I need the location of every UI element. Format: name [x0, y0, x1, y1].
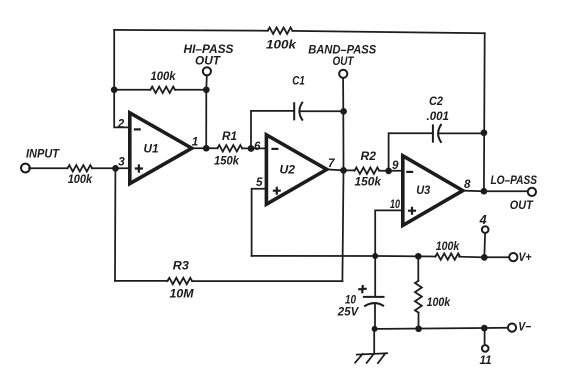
svg-text:V−: V−	[518, 320, 531, 333]
minus sign U3	[406, 171, 413, 173]
svg-text:V+: V+	[519, 251, 532, 264]
resistor R1 150k	[218, 145, 243, 151]
svg-text:U3: U3	[416, 184, 431, 197]
wire: R2 to U3 pin 9	[380, 170, 403, 172]
svg-text:C2: C2	[429, 95, 444, 108]
svg-text:.001: .001	[427, 110, 450, 123]
resistor 100k (U1 feedback)	[150, 87, 175, 93]
wire: U1 pin 2 lead to feedback node	[114, 90, 129, 128]
svg-text:9: 9	[392, 159, 399, 172]
wire: top damping wire right segment	[292, 31, 484, 33]
wire: input resistor to U1 pin 3	[92, 167, 130, 169]
capacitor 10uF 25V (bias bypass)	[374, 256, 376, 296]
svg-text:C1: C1	[292, 75, 305, 88]
terminal V-	[508, 324, 516, 332]
svg-text:U2: U2	[280, 163, 296, 176]
node: cap bottom / ground junction	[372, 326, 378, 332]
op-amp U2	[266, 135, 326, 204]
terminal HI-PASS OUT	[203, 67, 211, 75]
plus sign (10uF polarity)	[358, 285, 367, 293]
svg-text:INPUT: INPUT	[26, 147, 60, 160]
wire: top damping wire left segment	[114, 29, 268, 32]
svg-text:100k: 100k	[427, 296, 451, 309]
svg-text:10: 10	[345, 293, 356, 306]
svg-text:OUT: OUT	[510, 199, 534, 212]
pin 11 terminal	[482, 345, 489, 352]
wire: U2 integrator loop up to C1	[251, 111, 294, 149]
svg-text:7: 7	[328, 157, 335, 170]
wire: C1 to band-pass node	[300, 110, 344, 112]
svg-text:25V: 25V	[337, 306, 360, 319]
svg-text:R2: R2	[361, 150, 377, 163]
terminal BAND-PASS OUT	[339, 70, 347, 78]
svg-text:5: 5	[256, 176, 263, 189]
node: junction at U1 pin 3	[112, 165, 119, 172]
wire: feedback node up to top damping wire	[113, 30, 115, 90]
resistor R2 150k	[355, 168, 380, 174]
svg-text:R1: R1	[222, 130, 237, 143]
svg-text:OUT: OUT	[195, 54, 221, 67]
wire: ground bus (cap bottom to V- terminal)	[375, 328, 509, 329]
minus sign U2	[271, 148, 278, 150]
wire: C2 to right vertical	[439, 132, 484, 134]
wire: bias line (U2 pin5 to V+ node)	[252, 255, 436, 258]
node: U3 pin 9 node	[385, 168, 392, 175]
resistor R3 10M	[168, 278, 193, 284]
resistor 100k (bias to V+)	[435, 253, 460, 259]
wire: U2 pin 5 lead down to bias line	[252, 189, 267, 256]
wire: hi-pass node down to U1 output node	[205, 90, 207, 148]
capacitor C2	[433, 124, 442, 143]
svg-text:100k: 100k	[68, 173, 93, 186]
node: C2 / right vertical junction	[481, 129, 488, 136]
svg-text:100k: 100k	[266, 39, 297, 52]
wire: R3 branch down from U1 pin 3 junction	[114, 168, 116, 281]
svg-text:150k: 150k	[214, 154, 240, 167]
wire: feedback node to 100k feedback resistor	[114, 89, 150, 91]
node: U3 output node (lo-pass)	[481, 188, 488, 195]
svg-text:11: 11	[480, 354, 492, 367]
wire: band-pass vertical (terminal to C1 node to U2 output to R3 corner)	[342, 78, 343, 281]
svg-text:U1: U1	[144, 142, 159, 155]
wire: R1 to U2 pin 6	[242, 147, 266, 149]
node: U1 inverting input feedback node	[111, 86, 118, 93]
op-amp U3	[403, 156, 463, 226]
wire: U3 output to lo-pass terminal	[463, 190, 528, 193]
wire: ground drop	[373, 329, 375, 353]
wire: bias resistor to V+ node	[459, 256, 484, 259]
node: vertical resistor bottom junction	[415, 325, 422, 332]
node: pin 11 junction	[481, 325, 488, 332]
node: hi-pass node	[203, 86, 210, 93]
wire: R3 bottom left segment	[115, 280, 168, 282]
node: top of vertical bias resistor	[415, 253, 422, 260]
wire: U2 output to R2	[327, 169, 355, 170]
node: V+ / pin 4 junction	[481, 254, 488, 261]
wire: feedback resistor to hi-pass node	[175, 89, 206, 91]
input terminal	[21, 164, 30, 173]
wire: V+ node to V+ terminal	[484, 256, 509, 258]
plus sign U3	[408, 207, 416, 215]
svg-text:6: 6	[254, 140, 261, 153]
resistor 100k (input)	[68, 165, 93, 171]
svg-text:1: 1	[192, 135, 198, 148]
svg-text:OUT: OUT	[333, 55, 355, 68]
terminal V+	[509, 253, 517, 261]
wire: U3 pin 10 lead down to bias node	[375, 210, 403, 256]
resistor 100k (damping, top)	[268, 28, 293, 34]
pin 4 terminal	[482, 226, 489, 233]
node: bias junction (pin10 / cap / pin5)	[372, 253, 378, 259]
svg-text:100k: 100k	[151, 70, 177, 83]
wire: pin 4 terminal down to V+ node	[483, 233, 486, 255]
minus sign U1	[134, 128, 141, 130]
wire: input terminal to input resistor	[29, 167, 67, 169]
terminal LO-PASS OUT	[528, 188, 536, 196]
wire: right vertical from top wire down to C2 node and lo-pass node	[483, 33, 486, 191]
wire: vertical resistor to ground bus	[418, 313, 420, 329]
svg-text:100k: 100k	[436, 240, 460, 253]
ground	[355, 353, 387, 363]
wire: 10uF cap to ground bus	[374, 304, 376, 329]
wire: pin 11 junction to pin 11 terminal	[484, 328, 486, 345]
svg-text:3: 3	[118, 156, 125, 169]
svg-text:R3: R3	[173, 259, 190, 272]
plus sign U2	[273, 187, 281, 195]
wire: U1 output to R1	[192, 147, 218, 149]
svg-text:8: 8	[464, 178, 471, 191]
svg-text:10: 10	[390, 198, 400, 211]
resistor 100k (bias to V-) vertical	[417, 256, 419, 280]
node: U2 output node (band-pass)	[340, 167, 347, 174]
op-amp U1	[130, 113, 192, 184]
wire: R3 bottom right segment to band-pass vertical	[192, 280, 342, 282]
wire: U3 integrator loop up to C2	[389, 133, 433, 171]
node: C1 / band-pass vertical junction	[340, 108, 347, 115]
node: U1 output node	[203, 145, 210, 152]
wire: hi-pass terminal to node	[205, 75, 208, 89]
capacitor C1	[294, 102, 303, 121]
svg-text:2: 2	[117, 118, 125, 131]
svg-text:150k: 150k	[355, 176, 382, 189]
plus sign U1	[135, 164, 143, 172]
svg-text:10M: 10M	[170, 288, 194, 301]
svg-text:LO–PASS: LO–PASS	[491, 174, 538, 187]
node: U2 pin 6 node	[248, 145, 255, 152]
svg-text:4: 4	[479, 213, 487, 227]
